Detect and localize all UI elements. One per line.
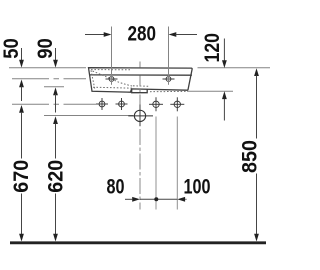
svg-text:80: 80	[107, 176, 125, 199]
svg-text:120: 120	[201, 33, 224, 63]
svg-text:670: 670	[10, 160, 33, 193]
svg-text:100: 100	[184, 176, 211, 199]
svg-text:90: 90	[34, 38, 57, 59]
svg-text:850: 850	[239, 140, 262, 173]
svg-text:50: 50	[0, 38, 23, 58]
svg-text:620: 620	[44, 160, 67, 193]
svg-text:280: 280	[128, 23, 157, 46]
